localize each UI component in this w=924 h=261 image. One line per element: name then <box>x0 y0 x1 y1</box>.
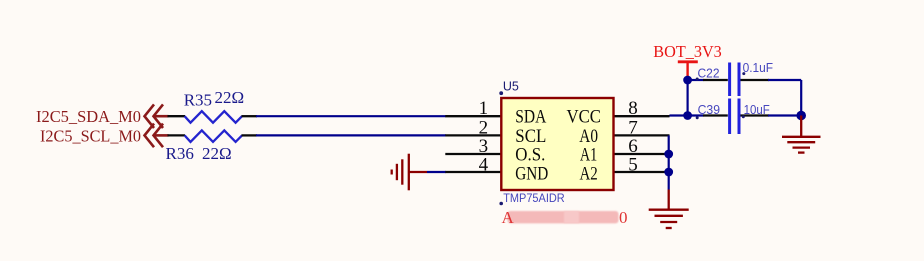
svg-text:C22: C22 <box>698 66 720 80</box>
value 0.1uF anchor dot <box>742 72 745 75</box>
watermark blurred text <box>502 208 628 227</box>
svg-text:A: A <box>502 208 515 227</box>
junction at pin5 <box>664 168 673 177</box>
wire SDA net to pin1 <box>256 115 446 117</box>
svg-text:A1: A1 <box>580 145 597 166</box>
resistor R35 pin lead left <box>168 115 186 117</box>
svg-text:U5: U5 <box>503 80 519 94</box>
ground (right) stem <box>800 116 802 137</box>
svg-text:A2: A2 <box>580 164 598 185</box>
svg-text:I2C5_SCL_M0: I2C5_SCL_M0 <box>40 126 141 145</box>
svg-text:0.1uF: 0.1uF <box>743 61 774 75</box>
junction at pin8 line <box>683 111 692 120</box>
power bar BOT_3V3 <box>678 60 698 63</box>
svg-text:10uF: 10uF <box>744 103 771 117</box>
junction right <box>796 111 806 121</box>
svg-text:O.S.: O.S. <box>515 145 545 166</box>
svg-text:22Ω: 22Ω <box>215 88 245 107</box>
designator U5 anchor dot <box>499 91 503 95</box>
wire A0/A1/A2 vertical to ground <box>668 135 670 189</box>
capacitor C22 lead left <box>688 79 704 81</box>
svg-text:8: 8 <box>628 98 638 119</box>
resistor R35 zigzag <box>185 111 242 123</box>
capacitor C22 lead right <box>741 79 770 81</box>
resistor R36 pin lead left <box>168 134 186 136</box>
ground (right) bars <box>782 137 821 153</box>
port chevrons I2C5_SDA_M0 <box>145 104 169 128</box>
ground (below A2) bars <box>649 210 689 228</box>
IC U5 pin stubs left (pins 1-4) <box>445 116 502 172</box>
IC U5 pin stubs right (pins 8-5) <box>613 116 670 172</box>
value 10uF anchor dot <box>742 115 745 118</box>
svg-text:I2C5_SDA_M0: I2C5_SDA_M0 <box>36 107 141 126</box>
junction at C22 tap <box>683 76 692 85</box>
svg-text:R36: R36 <box>166 144 194 163</box>
svg-text:BOT_3V3: BOT_3V3 <box>653 42 722 61</box>
capacitor C39 lead right <box>741 114 770 116</box>
svg-text:R35: R35 <box>184 91 212 110</box>
IC U5 body (TMP75AIDR) <box>501 98 613 190</box>
port chevrons I2C5_SCL_M0 <box>145 124 169 148</box>
power stem <box>686 62 688 76</box>
wire caps right vertical <box>800 80 802 116</box>
capacitor C39 lead left <box>703 114 728 116</box>
label C39 anchor dot <box>696 116 699 119</box>
wire power vertical <box>686 76 688 116</box>
svg-text:4: 4 <box>479 154 489 175</box>
svg-text:0: 0 <box>619 208 628 227</box>
part name anchor dot <box>499 202 503 206</box>
svg-text:VCC: VCC <box>567 106 602 127</box>
wire pin8 to C39 <box>670 114 704 116</box>
svg-text:GND: GND <box>515 164 548 185</box>
svg-text:5: 5 <box>628 154 638 175</box>
resistor R36 pin lead right <box>242 134 258 136</box>
capacitor C22 plates <box>728 63 731 97</box>
junction at pin6 <box>664 150 673 159</box>
ground (below A2) stem <box>668 190 670 210</box>
svg-text:C39: C39 <box>698 103 720 117</box>
wire ground to pin4 <box>427 171 446 173</box>
ground (pin 4, rotated left) stem <box>409 171 427 173</box>
capacitor C39 plates <box>728 99 731 135</box>
resistor R36 zigzag <box>185 130 242 142</box>
svg-text:TMP75AIDR: TMP75AIDR <box>503 191 565 205</box>
svg-text:22Ω: 22Ω <box>202 144 232 163</box>
label C22 anchor dot <box>696 78 699 81</box>
wire SCL net to pin2 <box>256 134 446 136</box>
svg-text:SDA: SDA <box>515 106 546 127</box>
svg-text:1: 1 <box>479 98 489 119</box>
resistor R35 pin lead right <box>242 115 258 117</box>
ground (pin 4) bars <box>392 154 409 191</box>
